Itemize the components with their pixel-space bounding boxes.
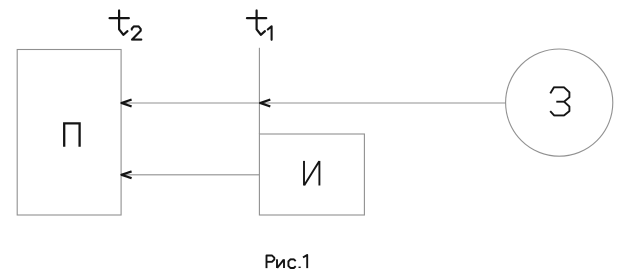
block П (receiver box) [17, 50, 121, 216]
arrowhead at node t1 [260, 100, 270, 107]
source circle З [506, 49, 613, 156]
arrowhead into П (upper) [121, 100, 131, 107]
block И (middle box) [259, 134, 364, 215]
node t1 vertical line [258, 48, 260, 134]
label П [64, 123, 79, 146]
caption Рис.1 [267, 255, 308, 268]
wire from И to П [121, 174, 259, 176]
arrowhead into П (lower) [121, 171, 131, 178]
label t1 [247, 11, 272, 40]
label З [550, 87, 569, 115]
label t2 [110, 11, 142, 40]
wire from З to П [121, 102, 506, 104]
label И [304, 161, 319, 186]
